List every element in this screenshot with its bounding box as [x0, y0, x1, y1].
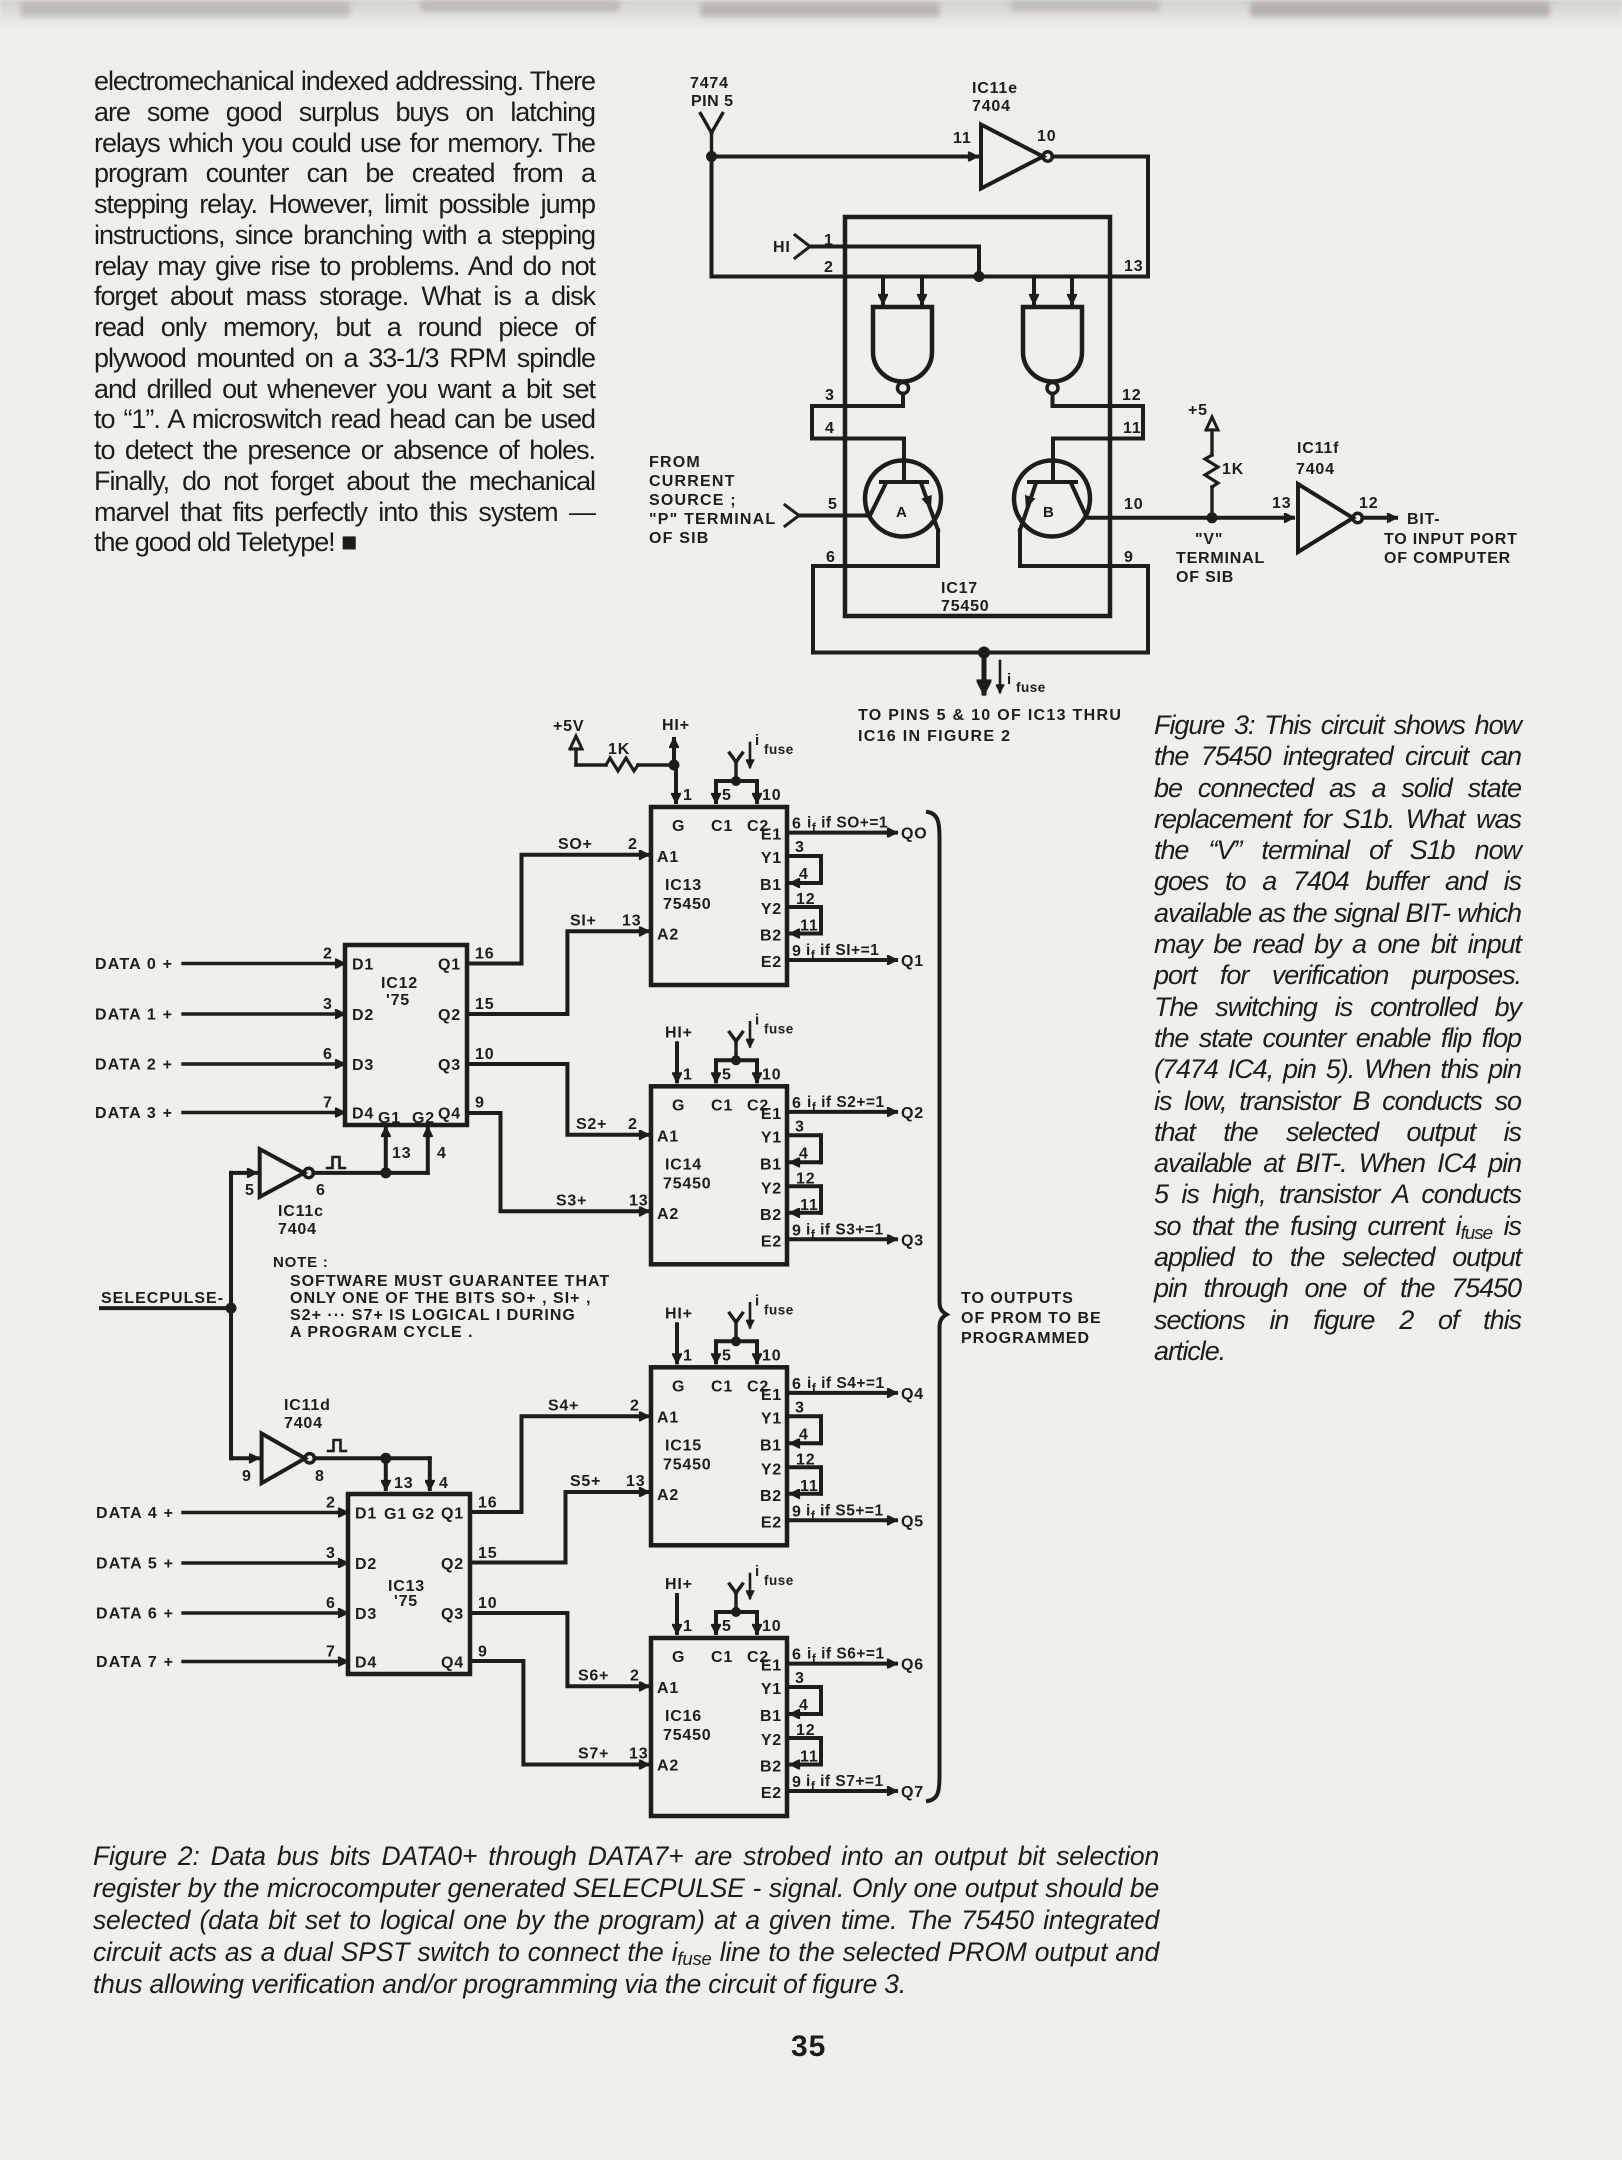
- svg-text:Y1: Y1: [761, 1681, 782, 1698]
- svg-text:12: 12: [796, 1170, 815, 1187]
- wire Y2-B2 feedback loop of IC14: [787, 1170, 821, 1214]
- svg-text:15: 15: [475, 996, 494, 1013]
- svg-text:D4: D4: [352, 1106, 374, 1123]
- svg-text:13: 13: [1272, 495, 1291, 512]
- svg-text:Q4: Q4: [441, 1655, 464, 1672]
- svg-text:'75: '75: [386, 992, 410, 1009]
- svg-text:OF PROM TO BE: OF PROM TO BE: [961, 1310, 1102, 1327]
- svg-text:S7+: S7+: [578, 1746, 609, 1763]
- wire DATA 5+ input to D2 of IC13: [96, 1545, 347, 1573]
- wire E2 output of IC16 to Q7: [787, 1773, 924, 1801]
- inverter IC11e (7404): [953, 80, 1056, 189]
- wire Y1-B1 feedback loop of IC15: [787, 1399, 821, 1443]
- svg-text:9: 9: [242, 1468, 252, 1485]
- junction dot on pin2 rail: [974, 271, 985, 282]
- wire E2 output of IC13 to Q1: [787, 942, 924, 970]
- svg-text:2: 2: [630, 1667, 640, 1684]
- svg-text:13: 13: [629, 1192, 648, 1209]
- svg-text:3: 3: [795, 839, 805, 856]
- wire DATA 1+ input to D2 of IC12: [95, 996, 344, 1024]
- svg-text:+5V: +5V: [553, 718, 584, 735]
- svg-text:Q1: Q1: [901, 953, 924, 970]
- wire Y2-B2 feedback loop of IC13: [787, 891, 821, 935]
- svg-text:9: 9: [475, 1095, 485, 1112]
- svg-text:10: 10: [475, 1046, 494, 1063]
- svg-text:9: 9: [792, 943, 802, 960]
- wire Y1-B1 feedback loop of IC14: [787, 1118, 821, 1162]
- svg-text:Q1: Q1: [441, 1506, 464, 1523]
- svg-text:9: 9: [792, 1503, 802, 1520]
- svg-text:5: 5: [722, 1618, 732, 1635]
- pin 9 Q4 of IC13: [478, 1644, 488, 1661]
- pin 4 notch (left): [812, 406, 845, 439]
- svg-text:6: 6: [316, 1182, 326, 1199]
- svg-text:DATA 2 +: DATA 2 +: [95, 1057, 173, 1074]
- wire S3+ net: [467, 1113, 648, 1211]
- wire transistor B collector to V terminal: [1087, 496, 1213, 518]
- svg-text:Q5: Q5: [901, 1513, 924, 1530]
- svg-text:E2: E2: [761, 1785, 782, 1802]
- svg-text:E1: E1: [761, 1106, 782, 1123]
- svg-text:3: 3: [795, 1670, 805, 1687]
- ifuse input node of IC14 (pins 5,10 via C1/C2): [716, 1011, 794, 1083]
- svg-text:11: 11: [800, 1749, 819, 1766]
- svg-text:7404: 7404: [284, 1415, 323, 1432]
- svg-text:D4: D4: [355, 1655, 377, 1672]
- note text block: [273, 1254, 610, 1341]
- svg-text:TO INPUT PORT: TO INPUT PORT: [1384, 531, 1518, 548]
- svg-text:DATA 6 +: DATA 6 +: [96, 1606, 174, 1623]
- svg-text:FROM: FROM: [649, 454, 701, 471]
- svg-text:6: 6: [792, 1376, 802, 1393]
- svg-text:B2: B2: [760, 1207, 782, 1224]
- svg-text:7474: 7474: [690, 75, 729, 92]
- svg-text:DATA 4 +: DATA 4 +: [96, 1505, 174, 1522]
- pin 10 Q3 of IC12: [475, 1046, 494, 1063]
- svg-text:IC15: IC15: [665, 1437, 702, 1454]
- svg-text:DATA 5 +: DATA 5 +: [96, 1556, 174, 1573]
- svg-text:Y2: Y2: [761, 1461, 782, 1478]
- wire Y2-B2 feedback loop of IC15: [787, 1451, 821, 1495]
- svg-text:75450: 75450: [941, 598, 990, 615]
- junction dot SELECPULSE: [226, 1303, 237, 1314]
- wire SELECPULSE vertical: [229, 1173, 233, 1458]
- svg-text:A1: A1: [657, 849, 679, 866]
- wire E1 output of IC13 to QO: [787, 815, 928, 843]
- pin 9 Q4 of IC12: [475, 1095, 485, 1112]
- svg-text:13: 13: [392, 1145, 411, 1162]
- svg-text:G2: G2: [412, 1506, 435, 1523]
- svg-text:CURRENT: CURRENT: [649, 473, 736, 490]
- svg-text:'75: '75: [394, 1593, 418, 1610]
- svg-text:SOFTWARE MUST GUARANTEE THAT: SOFTWARE MUST GUARANTEE THAT: [290, 1273, 610, 1290]
- svg-text:HI+: HI+: [665, 1576, 693, 1593]
- svg-text:S6+: S6+: [578, 1667, 609, 1684]
- svg-text:6: 6: [826, 549, 836, 566]
- wire SO+ net: [467, 836, 648, 964]
- svg-text:Y1: Y1: [761, 1129, 782, 1146]
- svg-text:7: 7: [323, 1095, 333, 1112]
- svg-text:6: 6: [792, 1095, 802, 1112]
- svg-text:1: 1: [683, 1347, 693, 1364]
- pin 11 notch (right): [1110, 406, 1143, 439]
- power +5V with 1K resistor (figure 2): [553, 718, 669, 771]
- svg-text:2: 2: [323, 946, 333, 963]
- wire BIT- output: [1362, 516, 1396, 520]
- wire Y1-B1 feedback loop of IC13: [787, 839, 821, 883]
- brace grouping PROM outputs: [928, 812, 947, 1801]
- svg-text:DATA 7 +: DATA 7 +: [96, 1654, 174, 1671]
- svg-text:IC16 IN FIGURE 2: IC16 IN FIGURE 2: [858, 728, 1011, 745]
- svg-text:B1: B1: [760, 877, 782, 894]
- node HI+ (figure 2 top): [662, 717, 690, 765]
- svg-text:1: 1: [683, 787, 693, 804]
- svg-text:PROGRAMMED: PROGRAMMED: [961, 1330, 1090, 1347]
- svg-text:if if SO+=1: if if SO+=1: [807, 815, 888, 835]
- ifuse input node of IC16 (pins 5,10 via C1/C2): [716, 1563, 794, 1635]
- wire S4+ net: [470, 1397, 648, 1512]
- svg-text:75450: 75450: [663, 1456, 712, 1473]
- svg-text:E1: E1: [761, 827, 782, 844]
- wire DATA 0+ input to D1 of IC12: [95, 946, 344, 974]
- wire into IC11d input: [231, 1456, 258, 1460]
- svg-text:Q2: Q2: [441, 1556, 464, 1573]
- svg-text:Y2: Y2: [761, 1732, 782, 1749]
- node HI+ into pin 1 of IC16: [665, 1576, 693, 1635]
- svg-text:1: 1: [683, 1618, 693, 1635]
- wire DATA 3+ input to D4 of IC12: [95, 1095, 344, 1123]
- svg-text:A2: A2: [657, 927, 679, 944]
- wire IC11d output to IC13 G1/G2: [314, 1458, 448, 1492]
- svg-text:8: 8: [315, 1468, 325, 1485]
- pin 15 Q2 of IC12: [475, 996, 494, 1013]
- svg-text:7404: 7404: [278, 1221, 317, 1238]
- latch IC12 ('75) box: [345, 945, 467, 1127]
- svg-text:75450: 75450: [663, 1727, 712, 1744]
- svg-text:if if S3+=1: if if S3+=1: [806, 1221, 884, 1241]
- IC IC14 (75450) box: [651, 1086, 787, 1264]
- pin 16 Q1 of IC13: [478, 1495, 497, 1512]
- svg-text:3: 3: [825, 387, 835, 404]
- svg-text:D2: D2: [352, 1007, 374, 1024]
- svg-text:13: 13: [629, 1746, 648, 1763]
- wire DATA 7+ input to D4 of IC13: [96, 1644, 347, 1672]
- wire NAND input drops: [883, 277, 1072, 304]
- svg-text:OF SIB: OF SIB: [1176, 569, 1234, 586]
- svg-text:12: 12: [1122, 387, 1141, 404]
- svg-text:1K: 1K: [608, 741, 630, 758]
- svg-text:5: 5: [245, 1182, 255, 1199]
- wire into IC11c input: [231, 1171, 256, 1175]
- svg-text:TO PINS 5 & 10 OF IC13 THRU: TO PINS 5 & 10 OF IC13 THRU: [858, 707, 1122, 724]
- junction dot ifuse rail: [978, 647, 990, 659]
- svg-text:D1: D1: [355, 1506, 377, 1523]
- pin 15 Q2 of IC13: [478, 1545, 497, 1562]
- figure 2 caption: [93, 1840, 1159, 2000]
- svg-text:75450: 75450: [663, 1175, 712, 1192]
- svg-text:G2: G2: [412, 1110, 435, 1127]
- svg-text:i: i: [755, 1011, 760, 1028]
- svg-text:if if S4+=1: if if S4+=1: [807, 1375, 885, 1395]
- svg-text:9: 9: [478, 1644, 488, 1661]
- svg-text:11: 11: [800, 1197, 819, 1214]
- node SELECPULSE- input: [101, 1290, 231, 1308]
- svg-text:Q1: Q1: [438, 957, 461, 974]
- svg-text:i: i: [1007, 671, 1012, 688]
- svg-text:Q3: Q3: [441, 1606, 464, 1623]
- svg-text:10: 10: [478, 1595, 497, 1612]
- svg-text:12: 12: [796, 891, 815, 908]
- svg-text:3: 3: [795, 1118, 805, 1135]
- svg-text:"V": "V": [1195, 531, 1223, 548]
- svg-text:2: 2: [824, 259, 834, 276]
- svg-text:15: 15: [478, 1545, 497, 1562]
- svg-text:if if S6+=1: if if S6+=1: [807, 1646, 885, 1666]
- svg-text:5: 5: [722, 787, 732, 804]
- svg-text:Q3: Q3: [438, 1057, 461, 1074]
- svg-text:6: 6: [323, 1046, 333, 1063]
- svg-text:3: 3: [326, 1545, 336, 1562]
- node HI+ into pin 1 of IC15: [665, 1305, 693, 1364]
- junction dot at 7474 pin5 node: [706, 151, 717, 162]
- wire SI+ net: [467, 912, 648, 1014]
- wire S6+ net: [470, 1613, 648, 1686]
- wire IC11c output to IC12 G1/G2: [313, 1128, 446, 1173]
- svg-text:fuse: fuse: [764, 742, 794, 757]
- svg-text:A PROGRAM CYCLE .: A PROGRAM CYCLE .: [290, 1324, 474, 1341]
- junction dot at IC13 strobe: [380, 1453, 391, 1464]
- wire Y1-B1 feedback loop of IC16: [787, 1670, 821, 1714]
- svg-text:DATA 1 +: DATA 1 +: [95, 1007, 173, 1024]
- svg-text:1: 1: [824, 232, 834, 249]
- svg-text:G: G: [672, 818, 685, 835]
- svg-text:Y1: Y1: [761, 1410, 782, 1427]
- pulse symbol at IC11c output: [327, 1157, 345, 1168]
- svg-text:3: 3: [323, 996, 333, 1013]
- svg-text:6: 6: [792, 816, 802, 833]
- svg-text:BIT-: BIT-: [1407, 511, 1440, 528]
- svg-text:1: 1: [683, 1066, 693, 1083]
- power +5 with 1K resistor: [1188, 402, 1244, 518]
- svg-text:5: 5: [722, 1347, 732, 1364]
- svg-text:if if S5+=1: if if S5+=1: [806, 1502, 884, 1522]
- ifuse input node of IC15 (pins 5,10 via C1/C2): [716, 1292, 794, 1364]
- svg-text:IC17: IC17: [941, 580, 978, 597]
- wire transistor B emitter to pin 9: [1020, 530, 1148, 566]
- IC IC13 (75450) box: [651, 807, 787, 985]
- svg-text:S5+: S5+: [570, 1473, 601, 1490]
- svg-text:E1: E1: [761, 1658, 782, 1675]
- svg-text:D3: D3: [352, 1057, 374, 1074]
- svg-text:B1: B1: [760, 1708, 782, 1725]
- wire E1 output of IC15 to Q4: [787, 1375, 924, 1403]
- svg-text:10: 10: [1037, 128, 1056, 145]
- svg-text:A1: A1: [657, 1409, 679, 1426]
- pulse symbol at IC11d output: [328, 1440, 346, 1451]
- svg-text:7: 7: [326, 1644, 336, 1661]
- svg-text:Q6: Q6: [901, 1657, 924, 1674]
- svg-text:C1: C1: [711, 818, 733, 835]
- svg-text:12: 12: [796, 1451, 815, 1468]
- svg-text:S2+ ··· S7+ IS LOGICAL I DUR: S2+ ··· S7+ IS LOGICAL I DURING: [290, 1307, 576, 1324]
- svg-text:11: 11: [1123, 420, 1142, 437]
- svg-text:A: A: [896, 504, 908, 521]
- svg-text:HI+: HI+: [662, 717, 690, 734]
- wire NAND-A output to pin3/4 notch: [812, 387, 903, 406]
- inverter IC11f (7404): [1296, 440, 1378, 552]
- wire pin2/pin13 rail across IC17: [712, 258, 1149, 277]
- node 7474 PIN5 input terminal: [690, 75, 734, 157]
- svg-text:TERMINAL: TERMINAL: [1176, 550, 1265, 567]
- svg-text:Y1: Y1: [761, 850, 782, 867]
- NAND gate A (inside IC17): [873, 307, 932, 406]
- svg-text:75450: 75450: [663, 896, 712, 913]
- svg-text:A1: A1: [657, 1680, 679, 1697]
- svg-text:G1: G1: [378, 1110, 401, 1127]
- svg-text:2: 2: [628, 1116, 638, 1133]
- svg-text:C1: C1: [711, 1378, 733, 1395]
- wire S5+ net: [470, 1473, 648, 1563]
- junction dot V terminal: [1207, 512, 1218, 523]
- svg-text:C1: C1: [711, 1649, 733, 1666]
- wire 7474-pin5 to IC11e input: [712, 155, 978, 159]
- svg-text:10: 10: [762, 787, 781, 804]
- svg-text:C1: C1: [711, 1097, 733, 1114]
- svg-text:HI+: HI+: [665, 1024, 693, 1041]
- svg-text:5: 5: [828, 496, 838, 513]
- svg-text:4: 4: [825, 420, 835, 437]
- svg-text:9: 9: [1124, 549, 1134, 566]
- svg-text:Q3: Q3: [901, 1232, 924, 1249]
- wire NAND-B output to pin12/11 notch: [1053, 387, 1144, 406]
- svg-text:HI+: HI+: [665, 1305, 693, 1322]
- svg-text:IC16: IC16: [665, 1708, 702, 1725]
- svg-text:Q2: Q2: [901, 1105, 924, 1122]
- svg-text:Q4: Q4: [438, 1106, 461, 1123]
- svg-text:9: 9: [792, 1774, 802, 1791]
- page number: [791, 2030, 826, 2064]
- node HI input terminal: [773, 232, 979, 277]
- svg-text:A2: A2: [657, 1758, 679, 1775]
- svg-text:4: 4: [439, 1475, 449, 1492]
- svg-text:4: 4: [799, 1426, 809, 1443]
- transistor A (IC17 output): [845, 439, 941, 537]
- svg-text:G1: G1: [384, 1506, 407, 1523]
- wire E2 output of IC14 to Q3: [787, 1221, 924, 1249]
- svg-text:Q7: Q7: [901, 1784, 924, 1801]
- svg-text:G: G: [672, 1649, 685, 1666]
- wire V terminal to IC11f input: [1212, 495, 1293, 518]
- svg-text:7404: 7404: [1296, 461, 1335, 478]
- svg-text:E2: E2: [761, 1514, 782, 1531]
- svg-text:Q4: Q4: [901, 1386, 924, 1403]
- svg-text:Y2: Y2: [761, 1180, 782, 1197]
- svg-text:4: 4: [799, 1697, 809, 1714]
- wire DATA 6+ input to D3 of IC13: [96, 1595, 347, 1623]
- svg-text:4: 4: [799, 1145, 809, 1162]
- svg-text:fuse: fuse: [1016, 680, 1046, 695]
- IC17 75450 box: [845, 217, 1110, 616]
- svg-text:i: i: [755, 1292, 760, 1309]
- svg-text:13: 13: [394, 1475, 413, 1492]
- transistor B (IC17 output): [1014, 439, 1110, 537]
- svg-text:SO+: SO+: [558, 836, 593, 853]
- svg-text:IC11c: IC11c: [278, 1203, 324, 1220]
- svg-text:fuse: fuse: [764, 1302, 794, 1317]
- svg-text:11: 11: [800, 918, 819, 935]
- svg-text:PIN 5: PIN 5: [691, 93, 734, 110]
- wire E1 output of IC14 to Q2: [787, 1094, 924, 1122]
- pin 10 Q3 of IC13: [478, 1595, 497, 1612]
- svg-text:G: G: [672, 1097, 685, 1114]
- svg-text:G: G: [672, 1378, 685, 1395]
- svg-text:i: i: [755, 732, 760, 749]
- svg-text:11: 11: [953, 130, 972, 147]
- svg-text:A2: A2: [657, 1487, 679, 1504]
- svg-text:A1: A1: [657, 1128, 679, 1145]
- svg-text:OF SIB: OF SIB: [649, 530, 710, 547]
- IC IC16 (75450) box: [651, 1638, 787, 1816]
- svg-text:fuse: fuse: [764, 1021, 794, 1036]
- svg-text:D1: D1: [352, 957, 374, 974]
- svg-text:IC11f: IC11f: [1297, 440, 1339, 457]
- svg-text:4: 4: [437, 1145, 447, 1162]
- svg-text:13: 13: [626, 1473, 645, 1490]
- svg-text:IC11d: IC11d: [284, 1397, 331, 1414]
- svg-text:S3+: S3+: [556, 1192, 587, 1209]
- svg-text:Y2: Y2: [761, 901, 782, 918]
- label TO OUTPUTS OF PROM TO BE PROGRAMMED: [961, 1290, 1102, 1347]
- svg-text:6: 6: [792, 1647, 802, 1664]
- latch IC13 ('75) box: [348, 1494, 470, 1674]
- svg-text:i: i: [755, 1563, 760, 1580]
- junction dot HI+ node: [669, 760, 680, 771]
- wire pin 6 outer return: [811, 566, 815, 653]
- wire S7+ net: [470, 1661, 648, 1765]
- svg-text:S2+: S2+: [576, 1116, 607, 1133]
- svg-text:6: 6: [326, 1595, 336, 1612]
- svg-text:B2: B2: [760, 928, 782, 945]
- svg-text:SELECPULSE-: SELECPULSE-: [101, 1290, 224, 1307]
- svg-text:B: B: [1043, 504, 1055, 521]
- svg-text:ONLY ONE OF THE BITS SO+ , SI+: ONLY ONE OF THE BITS SO+ , SI+ ,: [290, 1290, 591, 1307]
- junction dot at IC12 strobe: [380, 1167, 391, 1178]
- svg-text:2: 2: [326, 1495, 336, 1512]
- svg-text:10: 10: [762, 1618, 781, 1635]
- wire bottom ifuse rail: [813, 651, 1148, 655]
- svg-text:11: 11: [800, 1478, 819, 1495]
- figure 3 caption: [1154, 710, 1521, 1367]
- wire pin 9 outer return: [1146, 566, 1150, 653]
- svg-text:D3: D3: [355, 1606, 377, 1623]
- svg-text:IC11e: IC11e: [972, 80, 1018, 97]
- svg-text:OF COMPUTER: OF COMPUTER: [1384, 550, 1511, 567]
- svg-text:10: 10: [762, 1066, 781, 1083]
- svg-text:B2: B2: [760, 1488, 782, 1505]
- svg-text:D2: D2: [355, 1556, 377, 1573]
- svg-text:13: 13: [622, 912, 641, 929]
- svg-text:12: 12: [796, 1722, 815, 1739]
- wire Y2-B2 feedback loop of IC16: [787, 1722, 821, 1766]
- svg-text:9: 9: [792, 1222, 802, 1239]
- wire DATA 2+ input to D3 of IC12: [95, 1046, 344, 1074]
- svg-text:3: 3: [795, 1399, 805, 1416]
- svg-text:IC12: IC12: [381, 975, 418, 992]
- ifuse input node of IC13 (pins 5,10 via C1/C2): [716, 732, 794, 804]
- svg-text:+5: +5: [1188, 402, 1208, 419]
- svg-text:IC13: IC13: [665, 877, 702, 894]
- svg-text:Q2: Q2: [438, 1007, 461, 1024]
